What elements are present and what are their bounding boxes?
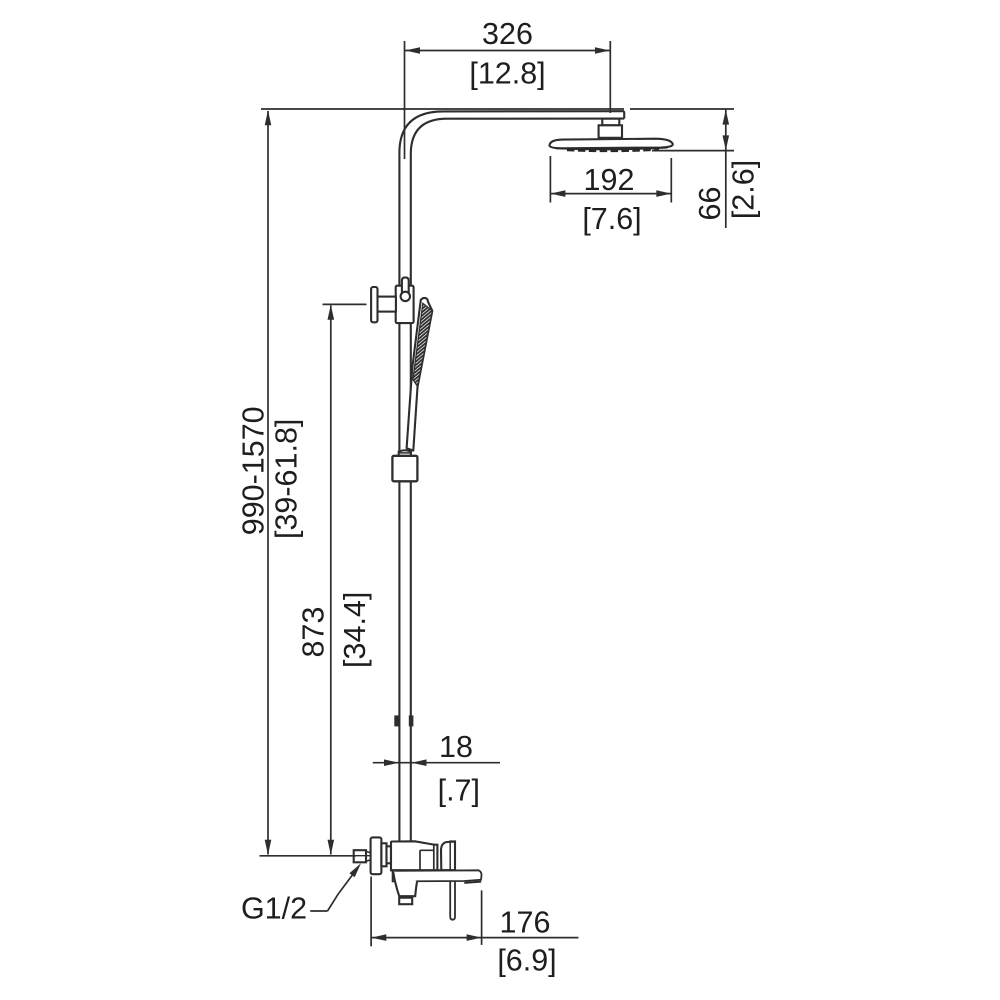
handle blade [450,841,455,919]
dim 873 tick [323,303,367,305]
shower arm end cap [623,111,625,118]
mixer step ring 1 [381,843,386,866]
spray nozzle dashes [567,149,659,150]
holder knob stem [377,297,396,312]
arrow 192 left [550,190,565,197]
spray face band [554,147,670,150]
svg-text:66: 66 [693,187,727,221]
arrow 873 bottom [328,840,335,855]
arrow 176 right [467,934,482,941]
spout bar tip underline [464,882,481,883]
arrow height bottom [265,840,272,855]
dim 192 extension left [549,156,551,203]
dim height line 990-1570 [267,111,269,855]
shower head mount nut [602,119,619,126]
slider collar [399,450,411,455]
dim 176 line [371,937,578,939]
mixer step ring 2 [387,846,392,863]
spout bar lever [393,870,482,881]
nipple chamfer [366,851,371,861]
svg-text:[7.6]: [7.6] [582,202,641,236]
svg-text:[39-61.8]: [39-61.8] [270,419,304,539]
handle escutcheon [441,842,455,871]
svg-text:[34.4]: [34.4] [338,592,372,668]
dim 873 line [330,306,332,855]
down spout [393,871,417,896]
svg-text:176: 176 [500,906,551,940]
arrow 873 top [328,305,335,320]
G1/2 leader dash [310,910,327,912]
holder knob end cap [371,287,377,322]
escutcheon seam [449,842,451,871]
overhead shower disc [549,139,672,149]
dim 66 extension [652,150,734,152]
shower head ball joint [599,125,622,138]
svg-text:G1/2: G1/2 [241,892,307,926]
dim 326 line [405,50,610,52]
svg-text:[6.9]: [6.9] [497,944,556,978]
extension line top (y=109) [261,108,734,110]
svg-text:[2.6]: [2.6] [727,160,761,219]
dimension graphics [260,41,735,946]
wand body hand shower [407,298,433,451]
svg-text:[.7]: [.7] [438,774,480,808]
svg-text:192: 192 [584,163,635,197]
dim 192 extension right [670,158,672,203]
arrow 176 left [371,934,386,941]
mixer main body [391,841,437,870]
dim 192 line [550,193,671,195]
arrow 326 right [595,47,610,54]
arrow 326 left [405,47,420,54]
dim 326 extension right [609,41,611,113]
riser pipe outer edge with bend into arm [399,111,624,841]
holder block on riser [396,286,414,323]
svg-text:[12.8]: [12.8] [469,57,545,91]
svg-text:18: 18 [439,730,473,764]
G1/2 leader line [328,867,359,911]
spout aerator [399,898,412,905]
arrow 66 down [723,135,730,150]
arrow G1/2 leader [349,863,361,877]
body bottom edge [391,869,455,871]
dim 326 extension left [404,41,406,159]
dim 176 extension left [370,877,372,947]
pipe joint nub right [409,715,414,726]
holder keyhole slot [402,277,409,293]
arrowheads [265,47,729,941]
wand spray face hatch [413,303,432,386]
body cartridge line [420,845,434,871]
arrow 192 right [656,190,671,197]
mixer wall flange [371,837,382,874]
slider collar seam [399,452,411,454]
svg-text:990-1570: 990-1570 [237,406,271,535]
riser pipe inner edge with bend into arm [411,119,624,841]
arrow 18 left [384,759,399,766]
slider block [392,456,417,482]
svg-text:326: 326 [482,17,533,51]
arrow 18 right [412,759,427,766]
arrow height top [265,110,272,125]
bottom datum line [260,855,357,857]
dim 176 extension right [481,890,483,945]
dim 18 line [373,762,500,764]
holder pivot hole [401,292,410,301]
nipple seam [354,855,370,857]
dim 66 line [725,109,727,228]
pipe joint nub left [394,715,399,726]
mixer inlet nipple G1/2 [354,850,366,862]
arrow 66 up [723,110,730,125]
svg-text:873: 873 [297,607,331,658]
